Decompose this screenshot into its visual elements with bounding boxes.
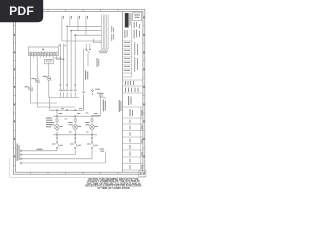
PDF badge: [0, 0, 43, 22]
pilot cluster PL3: [90, 115, 95, 135]
riser A upper stub: [60, 44, 62, 48]
disconnect DS1 poles: [86, 44, 90, 49]
feeder riser right: [83, 49, 85, 91]
riser wire A: [60, 47, 62, 89]
neutral drop wire: [104, 152, 106, 164]
wire TB1 to riser A: [53, 57, 61, 60]
tap wire T2: [70, 31, 72, 89]
float switch SW1: [56, 135, 59, 151]
junction dot riser B: [63, 58, 65, 60]
wire from TB1 to pushbutton PB1: [30, 58, 32, 87]
SW3 label: [87, 144, 98, 146]
wire from TB1 to pushbutton PB2: [36, 58, 38, 79]
breaker CB7: [91, 89, 94, 95]
zone ticks top border: [48, 9, 118, 11]
bus line B4: [20, 162, 105, 164]
DS1 contact dots: [85, 49, 87, 51]
cable label right: [111, 26, 114, 41]
control riser label: [103, 100, 106, 112]
title block company name cell: [125, 13, 131, 28]
sheet cut line bottom: [10, 158, 146, 177]
riser wire B: [63, 47, 65, 89]
breaker CB3: [66, 89, 69, 94]
pushbutton PB1: [28, 87, 33, 91]
terminal numbers: [30, 53, 57, 55]
sheet number mini box: [139, 171, 146, 177]
riser stub labels: [59, 45, 66, 47]
terminal strip label: [42, 49, 44, 51]
cable bundle hatch: [101, 48, 108, 50]
svg-text:AT TIME OF COMPLETION: AT TIME OF COMPLETION: [97, 186, 130, 190]
motor branch labels: [95, 89, 104, 94]
SW2 label: [70, 144, 81, 146]
title block upper-left small text: [124, 30, 127, 38]
svg-text:PDF: PDF: [9, 4, 34, 18]
bus line B1: [20, 150, 57, 152]
title block stamp text: [134, 14, 140, 18]
control riser right: [92, 95, 100, 115]
cluster zone small notes: [61, 108, 89, 132]
DS1 blade: [86, 49, 89, 53]
control rail upper: [50, 109, 84, 111]
bus line B2: [20, 154, 75, 156]
cable label below: [99, 51, 109, 54]
control rail lower: [53, 134, 97, 136]
breaker CB5: [74, 89, 77, 94]
PL0 label: [43, 76, 47, 77]
pilot cluster PL2: [73, 116, 78, 135]
wires CB row to junction rail: [61, 94, 76, 98]
bus cable note rotated: [17, 144, 20, 162]
border frame outer: [13, 9, 144, 174]
terminal strip TB1: [29, 47, 59, 56]
control rail riser: [49, 98, 51, 111]
wire FB1 to pilot PL0: [48, 64, 50, 77]
lower rail junction dots: [56, 134, 93, 136]
title block mid text: [125, 81, 139, 92]
pilot cluster PL1: [55, 110, 60, 135]
spare stub wire: [94, 39, 100, 43]
riser B upper stub: [63, 44, 65, 48]
drop terminal ticks: [56, 137, 93, 139]
wire PB1 to control rail: [31, 91, 57, 103]
bus end ticks: [20, 150, 22, 165]
title block mid cells: [123, 80, 143, 93]
tap junction dot T3: [74, 34, 76, 36]
title block strip left edge: [122, 11, 124, 172]
SW1 label: [52, 144, 63, 146]
wire PL0 down to junction rail: [49, 80, 57, 97]
breaker CB6: [82, 91, 85, 111]
title block revision table text: [124, 42, 138, 72]
pushbutton PB2: [35, 79, 40, 83]
feeder wire L1: [62, 16, 100, 42]
system voltage note: [46, 118, 53, 128]
FB1 text: [46, 60, 52, 61]
zone letters right border: [143, 17, 144, 158]
wire TB1 to riser B: [56, 58, 63, 60]
zone ticks left border: [13, 26, 15, 166]
feeder top labels: [63, 16, 88, 19]
terminal stubs: [31, 56, 57, 58]
tap wire T1: [66, 26, 68, 88]
tap wire T3: [74, 35, 76, 88]
pilot PL0: [46, 76, 51, 80]
feeder wire L3: [71, 16, 100, 31]
cable bundle arrowheads: [100, 26, 102, 43]
PL3 labels: [85, 113, 98, 127]
title block stamp box: [133, 13, 142, 21]
feeder wire N: [75, 16, 100, 36]
as-built rotated note: [119, 100, 122, 112]
tap junction dot T1: [66, 26, 68, 28]
title block revision table lines: [123, 13, 132, 77]
wire PB2 to control rail: [37, 83, 75, 107]
DS1 output wire: [87, 53, 89, 66]
border frame inner: [15, 11, 142, 172]
PB1 label: [25, 86, 29, 87]
motor M1: [100, 94, 106, 98]
cable bundle to motor: [102, 15, 108, 49]
junction rail: [57, 97, 79, 99]
bus line B3: [20, 158, 92, 160]
bus label above B1: [37, 149, 43, 150]
disclaimer paragraph: [86, 177, 142, 190]
zone letters left border: [14, 17, 15, 158]
breaker row labels: [60, 85, 77, 86]
rail junction dots: [56, 109, 76, 117]
fuse block FB1: [45, 59, 53, 64]
breaker CB4: [70, 89, 73, 94]
tap junction dot T2: [70, 30, 72, 32]
pump cable note: [97, 58, 100, 67]
title block lower cell dividers: [123, 107, 143, 170]
float switch SW2: [75, 135, 78, 155]
breaker CB1: [59, 89, 62, 94]
DS1 rating label: [85, 71, 88, 80]
zone ticks right border: [143, 26, 145, 166]
junction dot riser A: [60, 57, 62, 59]
neutral drop label: [100, 149, 105, 152]
PL2 labels: [68, 113, 81, 127]
zone ticks bottom border: [31, 172, 119, 174]
feeder wire L2: [67, 16, 100, 27]
breaker CB2: [62, 89, 65, 94]
PB2 label: [31, 78, 35, 79]
title block lower cell text: [128, 96, 142, 169]
float switch SW3: [91, 135, 94, 159]
control rail mid: [53, 115, 100, 117]
title block address text column: [134, 22, 140, 39]
PL1 labels: [50, 113, 63, 127]
